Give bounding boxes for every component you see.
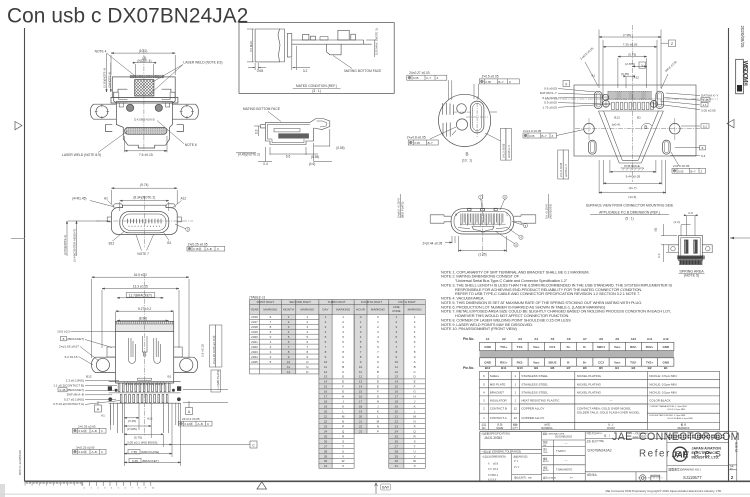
- left margin registration triangle: [15, 122, 22, 130]
- svg-text:5.2 ±0.15: 5.2 ±0.15: [65, 355, 78, 359]
- svg-text:A12: A12: [663, 337, 669, 341]
- V5 label 11.7 bracket: [126, 293, 155, 298]
- svg-text:D-: D-: [583, 345, 586, 349]
- V1 left foot: [106, 125, 113, 132]
- svg-text:0.05: 0.05: [413, 76, 419, 80]
- svg-text:B7: B7: [567, 366, 571, 370]
- svg-text:B/W: B/W: [382, 486, 389, 490]
- svg-text:V: V: [414, 454, 416, 458]
- svg-text:26/JUNE/2018: 26/JUNE/2018: [555, 435, 572, 439]
- svg-text:FINISH: FINISH: [607, 427, 615, 430]
- V5 vertical centerline: [144, 273, 146, 436]
- svg-text:D+: D+: [583, 361, 587, 365]
- svg-text:JAE Connector DNS Proprietary: JAE Connector DNS Proprietary Copyright©…: [605, 489, 722, 493]
- svg-text:GND: GND: [662, 361, 670, 365]
- svg-text:3.2: 3.2: [303, 69, 308, 73]
- V6 outer shell: [451, 209, 514, 234]
- svg-text:B6: B6: [583, 366, 587, 370]
- svg-text:2×⌀1.0 ±0.05: 2×⌀1.0 ±0.05: [523, 129, 542, 133]
- svg-text:B8: B8: [550, 366, 554, 370]
- svg-text:29: 29: [395, 454, 399, 458]
- svg-text:18: 18: [324, 400, 328, 404]
- V6 mating front view of connector interface: [430, 208, 536, 234]
- svg-text:(0.55): (0.55): [336, 146, 344, 150]
- V6 left wing leads: [430, 215, 451, 223]
- svg-text:8: 8: [63, 337, 65, 341]
- V8 mounting hole right: [670, 123, 681, 134]
- svg-text:2×0.6 ±0.05: 2×0.6 ±0.05: [673, 164, 690, 168]
- svg-text:26: 26: [395, 439, 399, 443]
- svg-text:B: B: [342, 365, 344, 369]
- svg-text:A4: A4: [534, 337, 538, 341]
- V9 bottom view with spring area: [669, 235, 712, 264]
- svg-text:(4.6): (4.6): [309, 162, 316, 166]
- svg-text:·: ·: [270, 370, 271, 374]
- svg-text:Z: Z: [437, 76, 439, 80]
- svg-text:2016: 2016: [251, 315, 258, 319]
- V2 receptacle rear plate: [287, 34, 292, 58]
- V5 right mounting ear: [174, 357, 198, 372]
- svg-text:C: C: [252, 444, 255, 448]
- JAE company name Japanese (glyph blocks): [669, 435, 725, 439]
- svg-text:12: 12: [287, 370, 291, 374]
- svg-text:(1.35): (1.35): [478, 252, 486, 256]
- V8 dim (5.75): [618, 56, 647, 58]
- svg-text:2024: 2024: [251, 355, 258, 359]
- svg-text:2017: 2017: [251, 320, 258, 324]
- svg-text:HEAT RESISTING PLASTIC: HEAT RESISTING PLASTIC: [521, 399, 560, 403]
- svg-text:A12: A12: [634, 76, 640, 80]
- svg-text:(BRACKET): (BRACKET): [67, 337, 84, 341]
- svg-text:X–Y: X–Y: [426, 76, 431, 80]
- svg-text:0.9 ±0.05: 0.9 ±0.05: [544, 101, 557, 105]
- bottom center registration triangle: [257, 482, 267, 489]
- svg-text:B–Y: B–Y: [428, 141, 433, 145]
- svg-text:CHK: CHK: [543, 452, 548, 454]
- svg-text:3.05 ±0.1 (INS BOSS): 3.05 ±0.1 (INS BOSS): [127, 440, 157, 444]
- svg-text:(MID PLATE): (MID PLATE): [141, 450, 159, 454]
- svg-text:24×0.2 ±0.05: 24×0.2 ±0.05: [182, 417, 200, 421]
- svg-text:COLOR:BLACK: COLOR:BLACK: [649, 399, 670, 403]
- svg-text:2×⌀0.8 ±0.05: 2×⌀0.8 ±0.05: [407, 136, 426, 140]
- svg-text:HOUR: HOUR: [356, 308, 366, 312]
- svg-text:SJS 42: SJS 42: [734, 442, 738, 453]
- svg-text:SURFACE VIEW FROM CONNECTOR MO: SURFACE VIEW FROM CONNECTOR MOUNTING SID…: [586, 204, 674, 208]
- V8 slot pad left: [589, 140, 597, 154]
- V1 left mounting ear: [91, 104, 117, 119]
- V6 inner bottom line: [458, 228, 508, 229]
- svg-text:(13.3): (13.3): [628, 195, 636, 199]
- svg-text:A1: A1: [591, 74, 595, 78]
- V5 label 9.65 bracket: [129, 458, 159, 463]
- svg-text:6.6: 6.6: [286, 155, 291, 159]
- V5 callout 24x0.2: [182, 417, 200, 421]
- svg-text:DX07BN24JA2: DX07BN24JA2: [588, 449, 612, 453]
- svg-text:Z: Z: [552, 134, 554, 138]
- svg-text:[TABLE-1]: [TABLE-1]: [250, 295, 265, 299]
- svg-text:N: N: [414, 419, 416, 423]
- svg-text:Z: Z: [701, 169, 703, 173]
- svg-text:P: P: [377, 429, 379, 433]
- svg-text:±0.1: ±0.1: [493, 473, 499, 477]
- svg-text:MARKING: MARKING: [371, 308, 386, 312]
- V1 left vertical dims: [106, 53, 108, 92]
- svg-text:(5.75): (5.75): [134, 435, 142, 439]
- svg-text:2×(0.25 ±0.05: 2×(0.25 ±0.05: [188, 242, 208, 246]
- V4 leaders NOTE 7: [136, 235, 154, 251]
- V1 laser weld spot right: [155, 104, 162, 111]
- svg-text:FIFTH DIGIT: FIFTH DIGIT: [398, 300, 415, 304]
- svg-text:9.44 ±0.05: 9.44 ±0.05: [626, 175, 641, 179]
- V1 shell top housing: [112, 77, 175, 98]
- svg-text:—: —: [565, 442, 568, 446]
- V2 dim 0.25 max right: [366, 40, 376, 57]
- svg-text:図面番号(DRAWING NO.): 図面番号(DRAWING NO.): [669, 467, 701, 471]
- V2 bracket under board: [327, 44, 342, 55]
- V5 datum flag C: [250, 441, 257, 448]
- V5 smt lead row B: [109, 392, 181, 394]
- V5 callout 3x0.25: [76, 445, 95, 449]
- svg-text:GOLD FLASH 0.1μm MIN.: GOLD FLASH 0.1μm MIN.: [667, 417, 693, 420]
- svg-text:SBU1: SBU1: [597, 345, 605, 349]
- V8 label PCB EDGE: [621, 164, 645, 171]
- V1 dim (10.1): [111, 52, 175, 54]
- V1 receptacle opening slot: [125, 127, 167, 134]
- V7 vertical callout right: [501, 128, 512, 160]
- svg-text:X: X: [414, 464, 416, 468]
- svg-text:⊕0.05 A–Y: ⊕0.05 A–Y: [507, 145, 511, 158]
- svg-text:20: 20: [359, 415, 363, 419]
- svg-text:27: 27: [324, 444, 328, 448]
- svg-text:0.5 ±0.2(CONTACT A): 0.5 ±0.2(CONTACT A): [53, 402, 84, 406]
- V2 leader mating bottom face: [333, 56, 352, 69]
- V5 left mounting ear: [92, 357, 116, 372]
- svg-text:1.1 ±0.2(CONTACT B): 1.1 ±0.2(CONTACT B): [53, 383, 84, 387]
- svg-text:THIRD DIGIT: THIRD DIGIT: [328, 300, 346, 304]
- left margin fold mark: [11, 238, 25, 240]
- svg-text:2.3 ±0.1(INS): 2.3 ±0.1(INS): [66, 379, 84, 383]
- V9 body: [679, 235, 703, 260]
- V5 main body outline: [116, 332, 174, 383]
- V4 mating face view of receptacle: [107, 204, 181, 235]
- svg-text:T: T: [342, 444, 344, 448]
- V6 left rotated dim: [400, 194, 402, 218]
- svg-text:0.4: 0.4: [657, 253, 661, 258]
- svg-text:11: 11: [287, 365, 290, 369]
- svg-text:(1.2): (1.2): [674, 220, 680, 224]
- svg-text:7.6 ±0.15: 7.6 ±0.15: [139, 153, 153, 157]
- V5 dim 13.3: [102, 288, 179, 290]
- svg-text:RX2+: RX2+: [646, 345, 654, 349]
- svg-text:N: N: [342, 419, 344, 423]
- svg-text:A6: A6: [567, 337, 571, 341]
- V5 dim 16.5: [92, 276, 189, 278]
- svg-text:RX1+: RX1+: [500, 361, 508, 365]
- svg-text:A9: A9: [615, 337, 619, 341]
- svg-text:9.4: 9.4: [701, 154, 706, 158]
- svg-text:2×⌀2.26 ±0.05 ⊕0.15Ⓜ: 2×⌀2.26 ±0.05 ⊕0.15Ⓜ: [212, 335, 216, 364]
- svg-text:DAY: DAY: [323, 308, 329, 312]
- V5 smt row end dots: [108, 386, 181, 391]
- V1 right bracket clip: [162, 89, 176, 103]
- svg-text:(5): (5): [654, 228, 658, 232]
- V5 label 0.45 bracket: [58, 388, 84, 392]
- V5 spring contact left: [129, 338, 136, 363]
- svg-text:(⌀0.4): (⌀0.4): [612, 122, 620, 126]
- svg-text:Q'TY: Q'TY: [513, 427, 519, 430]
- V1 vertical centerline: [143, 49, 145, 152]
- svg-text:11: 11: [324, 365, 327, 369]
- svg-text:INDUSTRY, LTD.: INDUSTRY, LTD.: [692, 456, 720, 460]
- V2 components on board: [303, 35, 309, 41]
- svg-text:MARKING: MARKING: [263, 308, 278, 312]
- svg-text:A1: A1: [104, 197, 108, 201]
- V3 contact dark strip: [278, 133, 309, 138]
- scan edge artifact left bottom: [0, 484, 5, 497]
- right margin approval stamp: [736, 59, 749, 94]
- svg-text:COPPER ALLOY: COPPER ALLOY: [521, 416, 544, 420]
- svg-text:P: P: [414, 424, 416, 428]
- V8 shell front edge line: [599, 110, 664, 112]
- svg-text:16: 16: [359, 395, 363, 399]
- svg-text:19: 19: [359, 410, 363, 414]
- svg-text:0.05: 0.05: [414, 141, 420, 145]
- svg-text:STAINLESS STEEL: STAINLESS STEEL: [521, 382, 548, 386]
- svg-text:24×0.27 ±0.03: 24×0.27 ±0.03: [409, 71, 430, 75]
- svg-text:2020: 2020: [251, 335, 258, 339]
- svg-text:23: 23: [359, 429, 363, 433]
- svg-text:23: 23: [324, 424, 328, 428]
- svg-text:U: U: [342, 449, 344, 453]
- svg-text:W: W: [413, 459, 416, 463]
- svg-text:(10 : 1): (10 : 1): [462, 159, 472, 163]
- bottom up-arrow marker: [375, 483, 378, 494]
- V6 circled 6: [500, 195, 507, 210]
- svg-text:14: 14: [324, 380, 328, 384]
- svg-text:B–Y: B–Y: [691, 169, 696, 173]
- svg-text:E: E: [414, 380, 416, 384]
- svg-text:20: 20: [395, 410, 399, 414]
- V5 center boss: [142, 336, 147, 356]
- svg-text:1.1: 1.1: [702, 103, 707, 107]
- svg-text:(5 : 1): (5 : 1): [625, 217, 633, 221]
- svg-text:SJ119577: SJ119577: [683, 475, 702, 480]
- svg-text:A2: A2: [502, 337, 506, 341]
- V6 top edge bumps: [468, 209, 498, 211]
- V5 smt lead row A: [118, 383, 170, 392]
- right margin registration triangle: [727, 120, 734, 128]
- title block frame: [480, 432, 729, 482]
- V5 smt lead row top line: [109, 380, 181, 382]
- svg-text:D+: D+: [567, 345, 571, 349]
- V2 dim 6.5 max: [247, 29, 254, 62]
- svg-text:P: P: [342, 424, 344, 428]
- V8 caption line 2: [590, 211, 669, 215]
- svg-text:N: N: [377, 424, 379, 428]
- svg-text:LASER WELD (NOTE 8.9): LASER WELD (NOTE 8.9): [183, 61, 222, 65]
- V5 dim (8.94): [117, 320, 168, 322]
- svg-text:WISDOM®: WISDOM®: [741, 61, 748, 87]
- V1 body corner notches: [119, 103, 123, 107]
- svg-text:—: —: [565, 459, 568, 463]
- svg-text:NICKLE: 0.5μm MIN.: NICKLE: 0.5μm MIN.: [649, 374, 677, 378]
- svg-text:22: 22: [324, 419, 328, 423]
- V8 signal pads row 2: [612, 102, 654, 110]
- svg-text:GOLD 0.7μm MIN.: GOLD 0.7μm MIN.: [667, 409, 686, 411]
- svg-text:13: 13: [359, 380, 363, 384]
- svg-text:(8.94): (8.94): [139, 316, 147, 320]
- svg-text:(4.45)(NOTE 2): (4.45)(NOTE 2): [238, 153, 260, 157]
- V1 right mounting ear: [172, 104, 198, 119]
- svg-text:7.35 ±0.05: 7.35 ±0.05: [623, 43, 638, 47]
- V3 leader: [268, 112, 281, 122]
- svg-text:(0.55): (0.55): [311, 155, 319, 159]
- V6 contact comb: [461, 214, 503, 226]
- svg-text:7.55: 7.55: [131, 450, 137, 454]
- V4 leader B1: [163, 232, 169, 241]
- svg-text:(11.7): (11.7): [629, 186, 637, 190]
- V5 datum flag A left: [95, 401, 102, 412]
- svg-text:0.12Ⓜ: 0.12Ⓜ: [185, 422, 193, 426]
- svg-text:12: 12: [514, 416, 518, 420]
- V5 callout 2x0.35: [78, 424, 96, 428]
- V8 right dim 5.2 8 9.4 ext: [681, 125, 700, 127]
- svg-text:2×0.5 ±0.05: 2×0.5 ±0.05: [482, 75, 499, 79]
- V8 alignment hole right: [650, 101, 657, 108]
- V8 datum box Y: [639, 62, 646, 68]
- svg-text:14: 14: [395, 380, 399, 384]
- svg-text:24: 24: [395, 429, 399, 433]
- svg-text:0.15Ⓜ: 0.15Ⓜ: [193, 247, 201, 251]
- svg-text:CONTACT B: CONTACT B: [490, 407, 507, 411]
- V4 leader B12: [113, 232, 125, 242]
- V7 detail view B circle: [439, 94, 491, 146]
- svg-text:2×1.5 ±0.05: 2×1.5 ±0.05: [559, 162, 563, 177]
- V5 leader to datum C: [172, 444, 250, 446]
- svg-text:STAINLESS STEEL: STAINLESS STEEL: [521, 390, 548, 394]
- svg-text:0.15 ±0.05: 0.15 ±0.05: [542, 96, 557, 100]
- svg-text:·: ·: [270, 365, 271, 369]
- svg-text:—: —: [610, 399, 613, 403]
- svg-text:JAPAN AVIATION: JAPAN AVIATION: [692, 446, 722, 450]
- svg-text:22: 22: [359, 424, 363, 428]
- svg-text:±0.8: ±0.8: [493, 461, 499, 465]
- V5 side tab left: [107, 347, 116, 357]
- V6 right wing leads: [514, 215, 536, 223]
- svg-text:GND: GND: [662, 345, 670, 349]
- svg-text:CC2: CC2: [598, 361, 604, 365]
- svg-text:NOTE 4: NOTE 4: [95, 49, 107, 53]
- svg-text:K: K: [377, 410, 379, 414]
- svg-text:(NOTE 4): (NOTE 4): [137, 59, 151, 63]
- svg-text:3.05 ±0.05: 3.05 ±0.05: [701, 108, 716, 112]
- B/W label: [381, 484, 391, 490]
- V5 dim 11.7 bracket: [117, 297, 164, 299]
- V9 right tab: [702, 245, 712, 253]
- V7 enlarged pad bars: [443, 103, 454, 115]
- bottom margin ruler scale: [24, 481, 26, 485]
- svg-text:MATING BOTTOM FACE: MATING BOTTOM FACE: [344, 69, 382, 73]
- V4 leader A12: [172, 201, 182, 209]
- svg-text:(INS BOSS): (INS BOSS): [548, 204, 552, 219]
- svg-text:A8: A8: [599, 337, 603, 341]
- V8 alignment hole left lower: [603, 100, 610, 107]
- title block outer right column: [729, 432, 737, 482]
- svg-text:⊕0.05 A–Y: ⊕0.05 A–Y: [564, 164, 568, 177]
- svg-text:27: 27: [395, 444, 399, 448]
- V5 right vertical boxed callouts: [210, 325, 222, 392]
- svg-text:10: 10: [287, 360, 291, 364]
- svg-text:(NOTE 5): (NOTE 5): [684, 274, 699, 278]
- V1 main body outline: [116, 102, 172, 149]
- V8 left dim stack leaders: [558, 89, 611, 108]
- svg-text:(7.95): (7.95): [623, 33, 631, 37]
- svg-text:B–Y: B–Y: [499, 80, 504, 84]
- V5 bottom dim extension lines: [111, 403, 181, 466]
- svg-text:(BRACKET): (BRACKET): [67, 388, 84, 392]
- svg-text:SOLDER TAILS NICKEL 1~3μm MIN: SOLDER TAILS NICKEL 1~3μm MIN.: [649, 414, 686, 417]
- svg-text:B: B: [644, 124, 647, 130]
- svg-text:H: H: [377, 400, 379, 404]
- svg-text:LASER WELD (NOTE 8.9): LASER WELD (NOTE 8.9): [62, 153, 101, 157]
- svg-text:B9: B9: [534, 366, 538, 370]
- svg-text:(0.35): (0.35): [621, 72, 629, 76]
- V8 datum box X: [563, 81, 570, 87]
- svg-text:2023: 2023: [251, 350, 258, 354]
- svg-text:MARKING: MARKING: [336, 308, 351, 312]
- svg-text:20: 20: [324, 410, 328, 414]
- svg-text:REMARKS: REMARKS: [678, 427, 690, 430]
- V5 side tab right: [174, 347, 183, 357]
- svg-text:23: 23: [395, 424, 399, 428]
- svg-text:K: K: [342, 405, 344, 409]
- svg-text:30: 30: [324, 459, 328, 463]
- svg-text:11: 11: [359, 370, 362, 374]
- svg-text:A7: A7: [583, 337, 587, 341]
- svg-text:2.6 ±0.15: 2.6 ±0.15: [201, 344, 205, 357]
- V9 left tab: [669, 245, 679, 253]
- svg-text:0.25 MAX. (NOTE 3): 0.25 MAX. (NOTE 3): [375, 28, 379, 55]
- svg-text:B–Y: B–Y: [542, 134, 547, 138]
- svg-text:B12: B12: [614, 115, 620, 119]
- V3 side view near mating bottom face: [236, 107, 332, 162]
- svg-text:A: A: [414, 360, 416, 364]
- svg-text:13: 13: [324, 375, 328, 379]
- V6 dim 0.44 leaders: [451, 236, 453, 243]
- V5 front view of connector (PCB side): [92, 277, 189, 359]
- V4 leader circled 5: [175, 224, 186, 229]
- svg-text:2019: 2019: [251, 330, 258, 334]
- svg-text:B12: B12: [485, 366, 491, 370]
- svg-text:T: T: [414, 444, 416, 448]
- V5 shell top cap: [116, 321, 174, 331]
- svg-text:T.SAITO: T.SAITO: [556, 450, 565, 453]
- svg-text:2×⌀1.65 ±0.07: 2×⌀1.65 ±0.07: [59, 345, 79, 349]
- svg-text:5.2: 5.2: [703, 124, 708, 128]
- svg-text:B: B: [465, 152, 468, 157]
- svg-text:B2: B2: [648, 366, 652, 370]
- svg-text:(BRACKET): (BRACKET): [142, 459, 159, 463]
- svg-text:NICKEL PLATING: NICKEL PLATING: [577, 390, 602, 394]
- bottom ruler ticks: [25, 480, 160, 482]
- V6 dim lines bottom: [458, 236, 460, 252]
- V1 left bracket clip: [114, 89, 128, 103]
- V6 circled 3: [512, 222, 528, 228]
- V8 dim 7.35: [603, 46, 657, 48]
- svg-text:(2.56)(NOTE 3): (2.56)(NOTE 3): [63, 235, 67, 255]
- svg-text:15: 15: [359, 390, 363, 394]
- svg-text:H: H: [414, 395, 416, 399]
